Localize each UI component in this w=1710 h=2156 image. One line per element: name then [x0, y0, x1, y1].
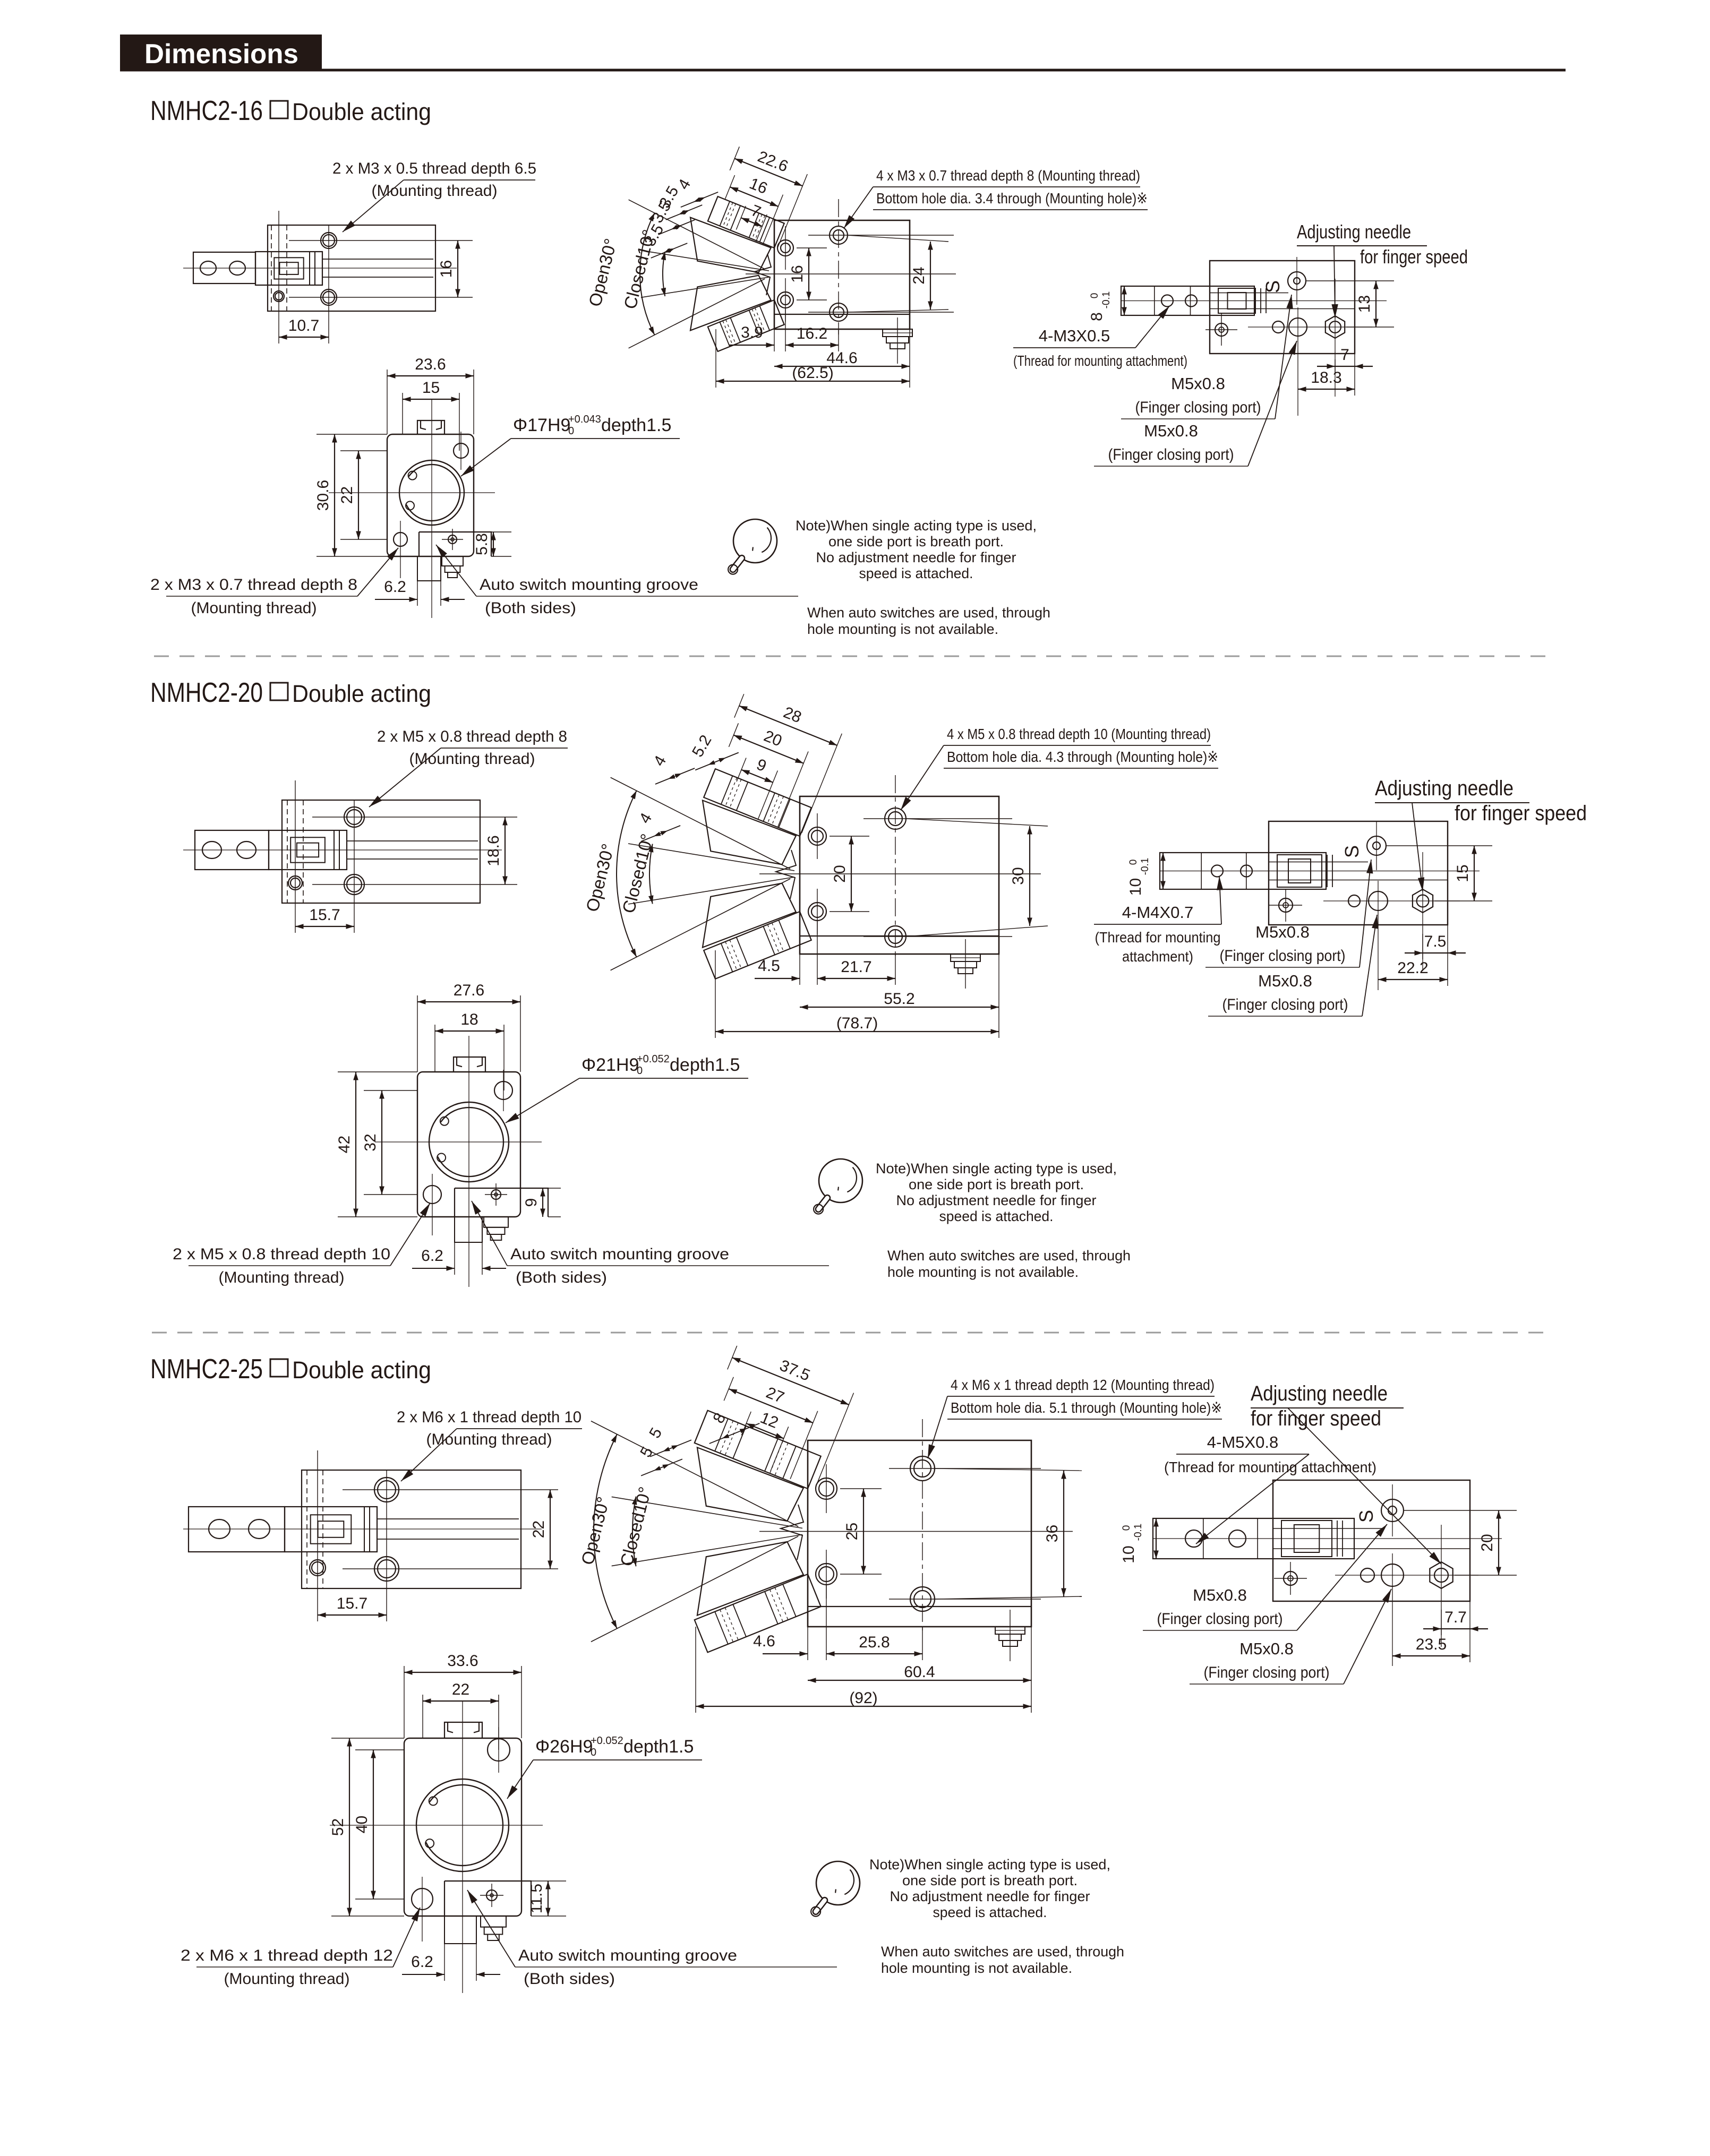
s1 side view small hole	[273, 291, 284, 302]
s2 front view open/close arc	[617, 791, 637, 957]
s1 top view dim 7	[1354, 354, 1355, 396]
s3 bottom view center vline	[462, 1701, 463, 1993]
svg-text:Auto switch mounting groove: Auto switch mounting groove	[480, 576, 698, 594]
s3 side view ext vline	[317, 1450, 318, 1621]
s2 top view rod lines	[1269, 862, 1368, 863]
s2 front view vertical centerline	[895, 775, 896, 959]
svg-text:2 x M5 x 0.8 thread depth 10: 2 x M5 x 0.8 thread depth 10	[173, 1246, 390, 1263]
s2 top view bottom circles	[1348, 895, 1360, 907]
s2 side view small hole	[288, 876, 302, 890]
svg-text:Auto switch mounting groove: Auto switch mounting groove	[510, 1246, 729, 1263]
s1 front view jaw notch	[754, 254, 771, 295]
s3 front view inner vdim 25	[863, 1489, 864, 1574]
svg-text:0: 0	[1121, 1525, 1132, 1531]
s1 bottom view top right hole	[454, 443, 468, 458]
s2 side view arm	[195, 830, 269, 870]
s2 side view piston rod lines	[347, 840, 478, 841]
svg-text:23.5: 23.5	[1416, 1636, 1447, 1653]
s2 top view arm holes	[1211, 865, 1223, 877]
svg-text:one side port is breath port.: one side port is breath port.	[828, 534, 1004, 549]
s2 top view S port circle	[1367, 836, 1386, 855]
s1 side view arm holes	[200, 261, 216, 275]
svg-text:7.7: 7.7	[1444, 1609, 1467, 1626]
svg-text:Adjusting needle: Adjusting needle	[1251, 1382, 1388, 1405]
s1 front view finger lower	[708, 300, 784, 351]
s3 front view overall dim (92)	[695, 1627, 696, 1713]
s2 top view arm height dim	[1162, 853, 1164, 889]
s3 bottom view left inner dim 40	[355, 1749, 404, 1750]
svg-text:(Finger closing port): (Finger closing port)	[1204, 1664, 1330, 1681]
svg-text:Double acting: Double acting	[292, 680, 431, 707]
s1 side view arm	[193, 252, 255, 284]
s1 bottom view left inner dim 22	[340, 450, 387, 451]
svg-text:22: 22	[452, 1681, 469, 1698]
svg-text:7.5: 7.5	[1424, 933, 1447, 950]
s1 front view inner vdim 16	[808, 248, 809, 300]
svg-text:speed is attached.: speed is attached.	[933, 1904, 1047, 1920]
s2 bottom view left height dim 42	[338, 1071, 417, 1072]
svg-text:No adjustment needle for finge: No adjustment needle for finger	[890, 1888, 1090, 1904]
s2 bottom view inner width dim 18	[434, 1025, 435, 1072]
s3 front view width dim 60.4	[1031, 1627, 1032, 1713]
svg-text:for finger speed: for finger speed	[1251, 1407, 1381, 1430]
s3 top view arm	[1153, 1518, 1354, 1559]
s2 front view angled dims	[703, 687, 845, 836]
s2 front view jaw notch	[776, 850, 796, 899]
s1 front view width dim 44.6	[909, 329, 910, 388]
svg-text:9: 9	[523, 1198, 540, 1207]
s2 top view hex adjusting screw	[1413, 889, 1433, 913]
svg-text:18: 18	[460, 1011, 478, 1028]
s3 bottom view top tab	[444, 1722, 482, 1738]
svg-text:(Mounting thread): (Mounting thread)	[191, 599, 317, 617]
svg-text:+0.052: +0.052	[637, 1053, 670, 1065]
s3 front view bottom dims	[807, 1627, 808, 1660]
s3 bottom view top right hole	[488, 1739, 510, 1761]
s3 bottom view left height dim 52	[331, 1738, 404, 1739]
svg-text:Auto switch mounting groove: Auto switch mounting groove	[518, 1947, 737, 1964]
header black title box	[120, 35, 322, 71]
svg-text:6.2: 6.2	[421, 1247, 443, 1265]
s1 front view body	[774, 220, 910, 329]
s2 side view height dim 18.6	[505, 817, 506, 884]
svg-text:0: 0	[591, 1747, 596, 1758]
svg-text:Adjusting needle: Adjusting needle	[1297, 221, 1411, 243]
svg-text:4-M4X0.7: 4-M4X0.7	[1122, 903, 1193, 922]
s3 top view arm height dim	[1156, 1518, 1157, 1559]
s1 bottom view top tab	[417, 420, 444, 434]
svg-text:6.2: 6.2	[384, 578, 406, 596]
svg-text:for finger speed: for finger speed	[1455, 802, 1587, 825]
s2 side view dashed lines	[287, 800, 288, 903]
svg-text:Bottom hole dia. 5.1 through (: Bottom hole dia. 5.1 through (Mounting h…	[951, 1399, 1222, 1416]
s1 bottom view switch tab	[419, 532, 491, 556]
s2 side view label leader	[441, 748, 568, 749]
s2 top view mechanism	[1277, 855, 1322, 887]
svg-text:M5x0.8: M5x0.8	[1144, 422, 1198, 440]
svg-text:55.2: 55.2	[884, 990, 914, 1008]
svg-text:15: 15	[1454, 864, 1472, 882]
s1 top view arm holes	[1161, 295, 1173, 307]
svg-text:40: 40	[353, 1816, 371, 1833]
s1 top view arm	[1121, 286, 1254, 315]
s2 top view right vdim 15	[1386, 845, 1492, 846]
svg-text:4 x M6 x 1 thread depth 12 (Mo: 4 x M6 x 1 thread depth 12 (Mounting thr…	[951, 1377, 1215, 1393]
s2 bottom view top tab	[454, 1057, 485, 1072]
svg-text:(Thread for mounting attachmen: (Thread for mounting attachment)	[1164, 1459, 1376, 1475]
svg-text:NMHC2-20: NMHC2-20	[150, 677, 263, 708]
s2 side view centerline	[183, 849, 502, 851]
s3 top view dim 23.5	[1392, 1655, 1470, 1656]
svg-text:4-M3X0.5: 4-M3X0.5	[1039, 327, 1110, 345]
s2 front view jaw upper	[686, 798, 796, 879]
svg-text:4 x M5 x 0.8 thread depth 10 (: 4 x M5 x 0.8 thread depth 10 (Mounting t…	[947, 726, 1211, 742]
s1 bottom view inner width dim 15	[402, 393, 403, 434]
s1 front view closed position lines	[641, 251, 769, 271]
s1 front view right vdim 24	[930, 242, 931, 310]
svg-text:11.5: 11.5	[528, 1884, 545, 1913]
svg-text:hole mounting is not available: hole mounting is not available.	[807, 621, 998, 637]
s2 bottom view top right hole	[494, 1081, 512, 1100]
s3 front view open/close rays	[591, 1421, 798, 1527]
s3 side view piston rod lines	[377, 1518, 519, 1519]
svg-text:Φ21H9: Φ21H9	[582, 1055, 639, 1075]
s1 side view mounting hole top	[321, 233, 337, 248]
s3 top view S port circle	[1381, 1499, 1404, 1522]
s1 front view bottom step and nut	[774, 314, 910, 315]
svg-text:30: 30	[1010, 867, 1027, 884]
svg-text:(Mounting thread): (Mounting thread)	[219, 1269, 345, 1286]
note magnifier icon	[733, 519, 777, 563]
s2 front view overall dim (78.7)	[715, 950, 716, 1038]
s2 top view dim 22.2	[1378, 979, 1448, 980]
s2 top view body	[1269, 821, 1448, 925]
s3 front view right mounting holes	[910, 1456, 935, 1481]
s2 top view dim 7.5	[1447, 925, 1448, 986]
svg-text:attachment): attachment)	[1122, 948, 1193, 965]
svg-text:10: 10	[1127, 878, 1144, 896]
svg-text:4 x M3 x 0.7 thread depth 8 (M: 4 x M3 x 0.7 thread depth 8 (Mounting th…	[876, 167, 1140, 184]
svg-text:2 x M5 x 0.8 thread depth 8: 2 x M5 x 0.8 thread depth 8	[377, 728, 567, 745]
s3 side view body	[302, 1470, 521, 1588]
s3 front view right vdim 36	[1063, 1471, 1064, 1596]
s1 bottom view center hline	[329, 492, 495, 493]
s3 bottom view snap ring circle	[416, 1779, 509, 1871]
svg-text:27.6: 27.6	[454, 982, 484, 999]
s3 side view arm	[189, 1507, 285, 1552]
s3 side view centerline	[183, 1528, 542, 1530]
svg-text:(Finger closing port): (Finger closing port)	[1108, 446, 1234, 463]
s1 top view body	[1210, 261, 1355, 354]
svg-text:23.6: 23.6	[415, 356, 446, 373]
svg-text:for finger speed: for finger speed	[1360, 246, 1468, 268]
svg-text:(Finger closing port): (Finger closing port)	[1157, 1610, 1283, 1628]
s2 side view mounting hole bottom	[344, 874, 364, 895]
s2 bottom view switch tab	[455, 1188, 548, 1217]
svg-text:2 x M6 x 1 thread depth 12: 2 x M6 x 1 thread depth 12	[181, 1947, 393, 1964]
svg-text:NMHC2-25: NMHC2-25	[150, 1354, 263, 1385]
svg-text:(Finger closing port): (Finger closing port)	[1222, 996, 1348, 1013]
svg-text:speed is attached.: speed is attached.	[859, 565, 973, 581]
s2 front view body	[800, 796, 999, 954]
s3 bottom view center hline	[330, 1825, 543, 1826]
s2 top view arm	[1160, 853, 1326, 889]
s2 bottom view right height dim 9	[548, 1188, 561, 1189]
s2 front view width dim 55.2	[998, 954, 999, 1038]
s1 top view bottom circles	[1272, 321, 1284, 333]
s1 side view centerline	[183, 268, 457, 269]
svg-text:(Thread for mounting: (Thread for mounting	[1095, 929, 1221, 946]
s1 top view S port circle	[1288, 272, 1306, 290]
svg-text:(Thread for mounting attachmen: (Thread for mounting attachment)	[1013, 353, 1187, 369]
s1 front view jaw lower	[676, 263, 771, 332]
svg-text:15.7: 15.7	[309, 906, 340, 924]
s2 side view bottom dim 15.7	[295, 926, 354, 927]
s2 side view mounting hole top	[344, 807, 364, 827]
s1 top view hex adjusting screw	[1326, 316, 1345, 338]
svg-text:M5x0.8: M5x0.8	[1193, 1586, 1247, 1604]
s1 top view small cross hole	[1215, 323, 1228, 336]
svg-text:M5x0.8: M5x0.8	[1258, 972, 1312, 990]
s1 front view overall dim (62.5)	[715, 329, 716, 388]
svg-text:hole mounting is not available: hole mounting is not available.	[887, 1264, 1079, 1280]
s2 side view arm holes	[202, 841, 221, 858]
svg-text:(Both sides): (Both sides)	[524, 1970, 615, 1988]
s3 top view small cross hole	[1284, 1571, 1297, 1585]
s3 bottom view bottom rails	[444, 1916, 476, 1944]
s3 side view label leader	[457, 1428, 582, 1429]
svg-text:3.9: 3.9	[741, 324, 763, 341]
svg-text:-0.1: -0.1	[1101, 291, 1112, 309]
s3 bottom view bottom left hole	[412, 1888, 433, 1910]
s3 bottom view top width dim 33.6	[404, 1666, 405, 1738]
svg-text:2 x M3 x 0.7 thread depth 8: 2 x M3 x 0.7 thread depth 8	[150, 576, 357, 594]
s3 front view bottom step and nut	[808, 1606, 1031, 1607]
svg-text:-0.1: -0.1	[1140, 858, 1151, 875]
s1 front view bottom dims	[774, 329, 775, 351]
separator dashed line 2	[152, 1332, 1553, 1334]
s3 front view jaw notch	[781, 1505, 803, 1560]
svg-text:22.2: 22.2	[1397, 959, 1428, 977]
svg-text:10.7: 10.7	[288, 317, 319, 334]
svg-text:2 x M3 x 0.5 thread depth 6.5: 2 x M3 x 0.5 thread depth 6.5	[332, 160, 536, 177]
s3 top view body	[1273, 1480, 1470, 1601]
s1 bottom view bottom rails	[417, 556, 441, 581]
s2 bottom view bottom left hole	[423, 1186, 441, 1204]
s1 side view piston rod lines	[322, 259, 433, 260]
s3 top view arm holes	[1185, 1530, 1202, 1547]
s2 front view open/close rays	[611, 777, 791, 869]
s1 bottom view body	[387, 434, 474, 556]
svg-text:S: S	[1262, 280, 1284, 293]
s2 front view jaw lower	[686, 869, 796, 949]
svg-text:depth1.5: depth1.5	[670, 1055, 740, 1075]
svg-text:0: 0	[1089, 293, 1100, 299]
svg-text:21.7: 21.7	[841, 958, 871, 976]
s3 side view mechanism block	[285, 1507, 377, 1552]
s2 front view finger lower	[704, 912, 811, 979]
svg-text:Note)When single acting type i: Note)When single acting type is used,	[869, 1857, 1110, 1872]
s1 front view jaw upper	[676, 216, 771, 285]
svg-text:33.6: 33.6	[447, 1652, 478, 1670]
s1 front view angled dims	[708, 140, 810, 250]
svg-text:18.6: 18.6	[485, 835, 502, 866]
s2 front view right vdim 30	[1029, 826, 1030, 926]
s2 bottom view left inner dim 32	[364, 1090, 417, 1091]
svg-text:+0.052: +0.052	[591, 1735, 623, 1747]
s3 side view bottom dim 15.7	[318, 1614, 387, 1616]
s1 side view label leader	[404, 179, 535, 181]
s3 top view right vdim 20	[1404, 1510, 1517, 1511]
s3 bottom view switch tab	[444, 1881, 531, 1916]
svg-text:32: 32	[362, 1133, 379, 1151]
svg-text:speed is attached.: speed is attached.	[939, 1208, 1054, 1224]
note magnifier icon	[819, 1159, 862, 1202]
svg-text:one side port is breath port.: one side port is breath port.	[902, 1872, 1078, 1888]
svg-text:Note)When single acting type i: Note)When single acting type is used,	[796, 518, 1037, 534]
s2 bottom view center vline	[468, 1036, 469, 1287]
separator dashed line 1	[154, 656, 1553, 657]
svg-text:Adjusting needle: Adjusting needle	[1375, 777, 1514, 800]
s3 front view horizontal centerline	[759, 1531, 1073, 1532]
svg-text:7: 7	[1340, 346, 1349, 364]
s2 front view left holes	[808, 827, 826, 845]
svg-text:18.3: 18.3	[1311, 369, 1341, 386]
s3 side view height dim 22	[550, 1490, 551, 1569]
svg-text:When auto switches are used, t: When auto switches are used, through	[807, 605, 1050, 621]
svg-text:16: 16	[789, 265, 806, 282]
svg-text:Φ17H9: Φ17H9	[513, 415, 570, 435]
svg-text:Φ26H9: Φ26H9	[535, 1737, 593, 1757]
svg-text:S: S	[1355, 1510, 1377, 1523]
svg-text:one side port is breath port.: one side port is breath port.	[909, 1176, 1084, 1192]
svg-text:0: 0	[568, 425, 574, 437]
svg-text:20: 20	[1478, 1534, 1496, 1551]
s3 front view angled dims	[698, 1339, 857, 1489]
svg-text:(Finger closing port): (Finger closing port)	[1135, 399, 1261, 416]
svg-text:M5x0.8: M5x0.8	[1239, 1639, 1294, 1658]
s1 side view bottom dim 10.7	[279, 337, 329, 338]
s3 front view jaw upper	[678, 1446, 803, 1537]
s1 front view open/close arc	[640, 213, 655, 335]
svg-text:When auto switches are used, t: When auto switches are used, through	[887, 1248, 1131, 1264]
s3 front view finger lower	[695, 1574, 821, 1652]
svg-text:4.5: 4.5	[758, 957, 780, 975]
s2 front view horizontal centerline	[759, 873, 1041, 874]
s1 bottom view top width dim 23.6	[387, 370, 388, 434]
svg-text:15.7: 15.7	[337, 1595, 367, 1612]
s1 side view body	[268, 225, 435, 311]
s2 bottom view 6.2 dim	[454, 1242, 455, 1275]
svg-text:+0.043: +0.043	[568, 414, 601, 425]
svg-text:hole mounting is not available: hole mounting is not available.	[881, 1960, 1072, 1976]
s2 bottom view center hline	[375, 1141, 542, 1143]
s2 bottom view bottom rails	[455, 1217, 482, 1242]
svg-text:No adjustment needle for finge: No adjustment needle for finger	[896, 1192, 1097, 1208]
s1 bottom view center vline	[431, 399, 432, 618]
svg-text:52: 52	[329, 1818, 347, 1836]
s2 side view mechanism block	[269, 830, 347, 870]
s2 bottom view top width dim 27.6	[417, 995, 418, 1072]
svg-text:10: 10	[1120, 1545, 1138, 1563]
s2 front view finger upper	[704, 769, 811, 836]
svg-text:16: 16	[438, 260, 455, 278]
s3 top view mechanism	[1281, 1521, 1332, 1557]
svg-text:Bottom hole dia. 4.3 through (: Bottom hole dia. 4.3 through (Mounting h…	[947, 749, 1218, 765]
s2 side view ext vline	[295, 780, 296, 933]
s1 bottom view bottom left hole	[394, 532, 407, 546]
svg-text:60.4: 60.4	[904, 1663, 935, 1681]
s1 front view open/close rays	[629, 200, 765, 269]
s3 side view arm holes	[209, 1519, 230, 1539]
svg-text:4-M5X0.8: 4-M5X0.8	[1207, 1433, 1278, 1451]
s3 bottom view 6.2 dim	[444, 1944, 445, 1981]
s3 front view closed position lines	[612, 1497, 802, 1528]
s1 bottom view snap ring circle	[399, 460, 464, 525]
svg-text:22: 22	[530, 1521, 548, 1538]
svg-text:S: S	[1341, 845, 1363, 858]
svg-text:36: 36	[1044, 1525, 1061, 1542]
s1 bottom view right height dim 5.8	[491, 531, 511, 532]
s1 side view dashed lines	[271, 225, 272, 311]
svg-text:2 x M6 x 1 thread depth 10: 2 x M6 x 1 thread depth 10	[397, 1408, 582, 1426]
svg-text:8: 8	[1088, 312, 1106, 321]
s3 bottom view body	[404, 1738, 521, 1916]
svg-text:(Both sides): (Both sides)	[485, 599, 576, 617]
svg-text:16.2: 16.2	[797, 325, 827, 342]
svg-text:0: 0	[637, 1065, 643, 1077]
s3 front view body	[808, 1440, 1031, 1627]
s1 top view dim 18.3	[1298, 389, 1355, 390]
s3 side view mounting hole top	[374, 1478, 399, 1502]
svg-text:Bottom hole dia. 3.4 through (: Bottom hole dia. 3.4 through (Mounting h…	[876, 190, 1148, 207]
s2 front view inner vdim 20	[851, 836, 852, 912]
svg-text:(Mounting thread): (Mounting thread)	[224, 1970, 350, 1988]
s1 side view mounting hole bottom	[321, 289, 337, 305]
svg-text:(Finger closing port): (Finger closing port)	[1220, 947, 1346, 965]
svg-text:Dimensions: Dimensions	[144, 39, 298, 70]
s3 side view mounting hole bottom	[374, 1557, 399, 1581]
svg-text:25.8: 25.8	[859, 1634, 890, 1651]
s3 top view dim 7.7	[1469, 1601, 1470, 1662]
svg-text:depth1.5: depth1.5	[623, 1737, 694, 1757]
s2 bottom view snap ring circle	[429, 1102, 509, 1182]
svg-text:No adjustment needle for finge: No adjustment needle for finger	[816, 549, 1016, 565]
s1 side view height dim 16	[457, 240, 458, 297]
s2 front view closed position lines	[628, 844, 794, 871]
svg-text:(78.7): (78.7)	[836, 1015, 878, 1032]
s3 top view bottom circles	[1361, 1568, 1374, 1582]
s1 side view mechanism block	[255, 252, 322, 285]
s1 front view left holes	[777, 240, 793, 256]
svg-text:Double acting: Double acting	[292, 98, 431, 125]
s3 front view vertical centerline	[922, 1419, 923, 1632]
svg-text:24: 24	[910, 267, 928, 284]
s3 front view jaw lower	[678, 1525, 803, 1617]
s1 top view right vdim 13	[1306, 280, 1394, 281]
svg-text:4.6: 4.6	[753, 1633, 775, 1650]
svg-text:(62.5): (62.5)	[792, 364, 833, 382]
svg-text:(92): (92)	[849, 1689, 877, 1707]
s2 top view small cross hole	[1279, 898, 1293, 912]
svg-text:30.6: 30.6	[314, 480, 332, 511]
s1 front view right mounting holes	[830, 226, 848, 244]
s3 bottom view inner width dim 22	[422, 1695, 423, 1738]
s2 front view bottom step and nut	[800, 935, 999, 937]
s1 front view vertical centerline	[838, 199, 839, 334]
svg-text:25: 25	[843, 1523, 861, 1540]
note magnifier icon	[816, 1861, 860, 1905]
